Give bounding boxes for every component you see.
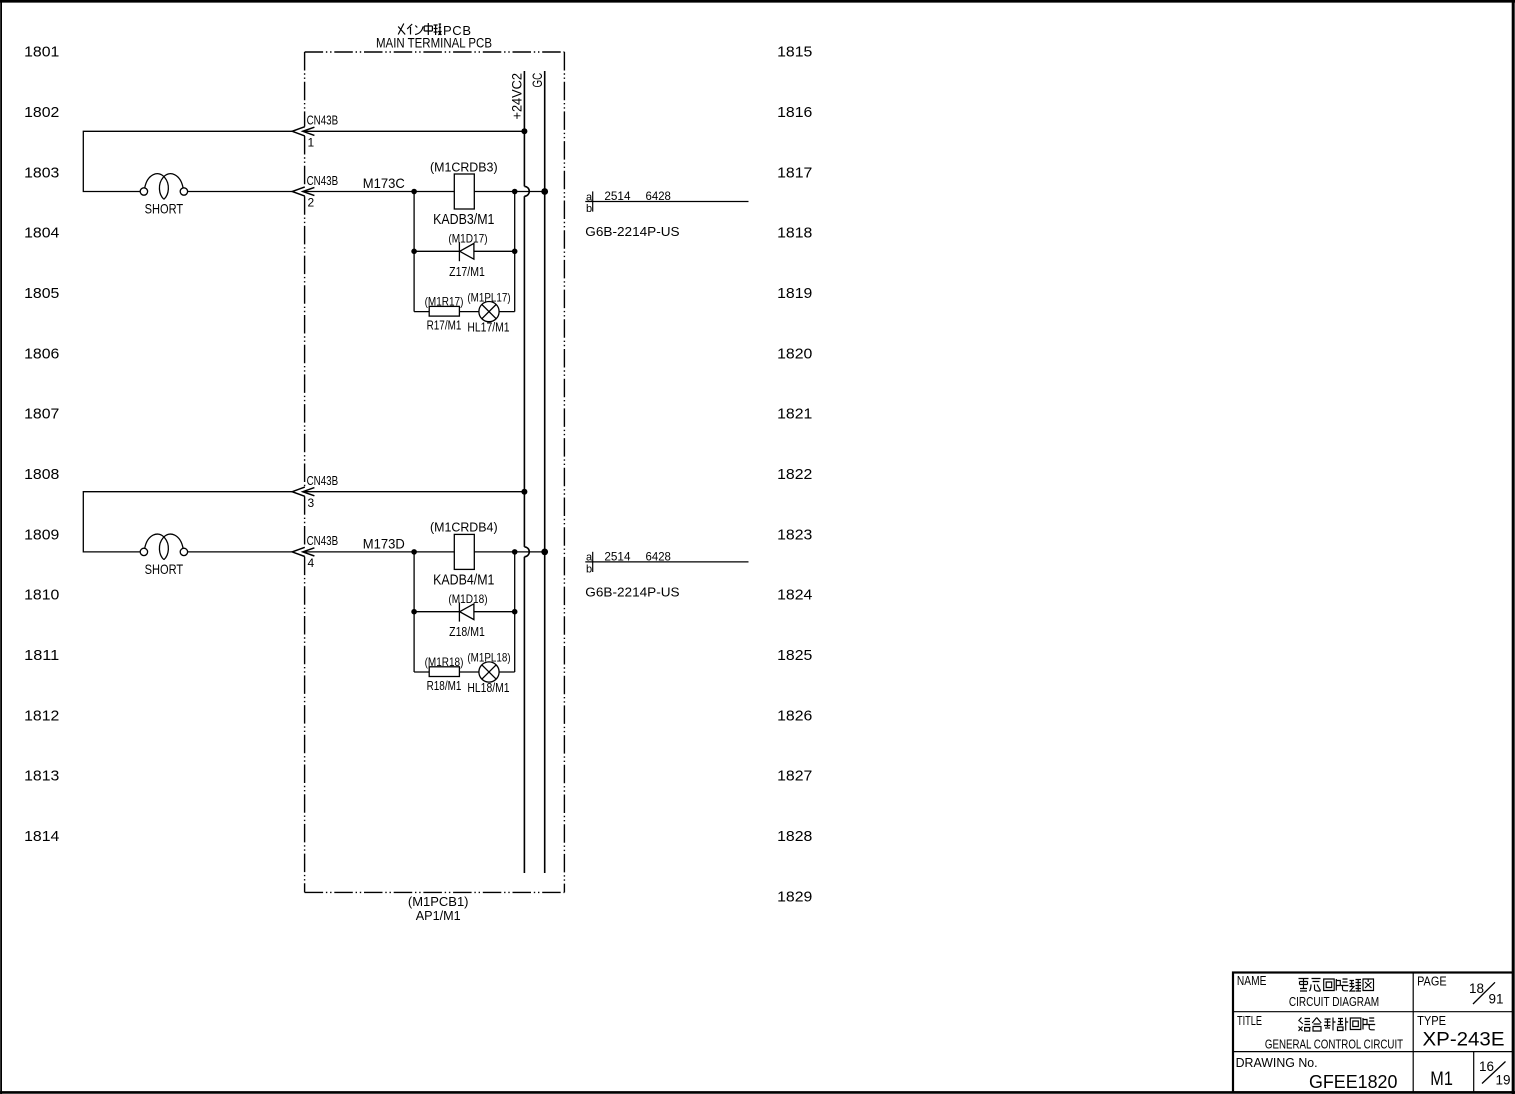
svg-text:1812: 1812	[24, 707, 59, 724]
svg-text:PAGE: PAGE	[1417, 975, 1447, 989]
node: diode row right	[512, 609, 518, 615]
resistor R18/M1	[429, 667, 459, 677]
総合制御回路 (pseudo kanji strokes)	[1299, 1018, 1376, 1032]
svg-text:1823: 1823	[777, 526, 812, 543]
node: branch left on M173D	[411, 549, 417, 555]
svg-text:CN43B: CN43B	[307, 114, 339, 128]
wire pin1 to +24VC2	[303, 130, 525, 132]
svg-text:(M1PL18): (M1PL18)	[467, 651, 510, 665]
connector CN43B pin 3	[292, 487, 314, 496]
PCB title メイン中継PCB (pseudo kanji strokes)	[398, 23, 441, 35]
svg-text:1820: 1820	[777, 345, 812, 362]
svg-text:GENERAL CONTROL CIRCUIT: GENERAL CONTROL CIRCUIT	[1265, 1036, 1403, 1051]
rail GC	[544, 71, 546, 873]
diode Z18/M1	[459, 603, 474, 622]
connector CN43B pin 1	[292, 127, 314, 136]
svg-text:1804: 1804	[24, 225, 59, 242]
relay coil KADB4/M1	[454, 534, 474, 569]
svg-text:b: b	[586, 563, 592, 575]
node: branch left on M173C	[411, 189, 417, 195]
PCB enclosure box (phantom dash-dot-dot outline), MAIN TERMINAL PCB	[305, 52, 565, 892]
svg-text:2: 2	[308, 196, 315, 210]
wire: left return loop pin3-pin4	[83, 492, 292, 552]
svg-text:1818: 1818	[777, 225, 812, 242]
svg-text:Z18/M1: Z18/M1	[449, 625, 485, 639]
svg-text:(M1PCB1): (M1PCB1)	[408, 894, 469, 909]
lamp HL18/M1	[479, 662, 499, 682]
svg-text:1819: 1819	[777, 285, 812, 302]
resistor R17/M1	[429, 306, 459, 316]
svg-text:SHORT: SHORT	[145, 201, 184, 217]
wire: diode row	[414, 611, 515, 613]
wire: left branch vertical	[413, 552, 415, 672]
svg-text:1825: 1825	[777, 647, 812, 664]
svg-text:1817: 1817	[777, 164, 812, 181]
svg-text:1827: 1827	[777, 768, 812, 785]
svg-text:1805: 1805	[24, 285, 59, 302]
svg-text:R18/M1: R18/M1	[427, 679, 462, 693]
power rail +24VC2	[524, 71, 529, 873]
svg-text:1808: 1808	[24, 466, 59, 483]
svg-text:KADB4/M1: KADB4/M1	[433, 573, 494, 589]
svg-text:R17/M1: R17/M1	[427, 319, 462, 333]
svg-text:1807: 1807	[24, 406, 59, 423]
relay coil KADB3/M1	[454, 174, 474, 209]
svg-text:KADB3/M1: KADB3/M1	[433, 212, 494, 228]
svg-text:4: 4	[308, 556, 315, 570]
wire: left return loop pin1-pin2	[83, 131, 292, 191]
svg-text:1822: 1822	[777, 466, 812, 483]
svg-text:1828: 1828	[777, 828, 812, 845]
wire: lamp row	[414, 311, 515, 313]
diode Z17/M1	[459, 242, 474, 261]
wire pin2 (M173C net) to GC	[303, 191, 545, 193]
svg-text:1824: 1824	[777, 587, 812, 604]
wire: right branch vertical	[514, 192, 516, 312]
wire pin4 (M173D net) to GC	[303, 551, 545, 553]
node: diode row left	[411, 609, 417, 615]
node: branch right on M173C	[512, 189, 518, 195]
svg-text:(M1D17): (M1D17)	[448, 231, 487, 245]
svg-text:1806: 1806	[24, 345, 59, 362]
connector CN43B pin 2	[292, 187, 314, 196]
svg-text:M173D: M173D	[363, 536, 405, 552]
svg-text:1809: 1809	[24, 526, 59, 543]
svg-text:(M1D18): (M1D18)	[448, 592, 487, 606]
svg-text:NAME: NAME	[1237, 974, 1267, 988]
wire: lamp row	[414, 671, 515, 673]
node: branch right on M173D	[512, 549, 518, 555]
wire: diode row	[414, 250, 515, 252]
svg-text:CIRCUIT DIAGRAM: CIRCUIT DIAGRAM	[1289, 994, 1379, 1009]
relay contact reference a/b	[585, 191, 748, 211]
svg-text:1801: 1801	[24, 44, 59, 61]
電気回路線図 (pseudo kanji strokes)	[1299, 979, 1374, 992]
jumper SHORT	[140, 174, 187, 200]
svg-text:(M1CRDB3): (M1CRDB3)	[430, 159, 498, 174]
svg-text:91: 91	[1489, 992, 1504, 1007]
node: pin1 wire joins +24VC2	[521, 128, 527, 134]
svg-text:+24VC2: +24VC2	[510, 73, 525, 120]
svg-text:b: b	[586, 203, 592, 215]
svg-text:AP1/M1: AP1/M1	[416, 908, 461, 923]
node: M173C joins GC	[541, 188, 548, 195]
svg-text:XP-243E: XP-243E	[1423, 1029, 1505, 1051]
svg-text:6428: 6428	[646, 191, 671, 203]
lamp HL17/M1	[479, 302, 499, 322]
svg-text:TITLE: TITLE	[1237, 1014, 1262, 1028]
svg-text:1816: 1816	[777, 104, 812, 121]
node: pin3 wire joins +24VC2	[521, 489, 527, 495]
node: diode row right	[512, 249, 518, 255]
svg-text:1802: 1802	[24, 104, 59, 121]
svg-text:1813: 1813	[24, 768, 59, 785]
svg-text:1815: 1815	[777, 44, 812, 61]
svg-text:1826: 1826	[777, 707, 812, 724]
relay contact reference a/b	[585, 552, 748, 572]
svg-text:G6B-2214P-US: G6B-2214P-US	[585, 224, 680, 239]
svg-text:1810: 1810	[24, 587, 59, 604]
svg-text:a: a	[586, 191, 593, 203]
svg-text:HL17/M1: HL17/M1	[467, 320, 509, 334]
svg-text:GC: GC	[530, 73, 545, 88]
svg-text:G6B-2214P-US: G6B-2214P-US	[585, 585, 680, 600]
svg-text:SHORT: SHORT	[145, 561, 184, 577]
svg-text:M173C: M173C	[363, 175, 405, 191]
node: diode row left	[411, 249, 417, 255]
svg-text:3: 3	[308, 496, 315, 510]
connector CN43B pin 4	[292, 547, 314, 556]
svg-text:1821: 1821	[777, 406, 812, 423]
svg-text:(M1R17): (M1R17)	[425, 295, 464, 309]
node: M173D joins GC	[541, 549, 548, 556]
svg-text:19: 19	[1496, 1073, 1511, 1088]
svg-text:16: 16	[1479, 1059, 1494, 1074]
svg-text:(M1PL17): (M1PL17)	[467, 290, 510, 304]
wire: right branch vertical	[514, 552, 516, 672]
wire: left branch vertical	[413, 192, 415, 312]
svg-text:a: a	[586, 552, 593, 564]
svg-text:Z17/M1: Z17/M1	[449, 265, 485, 279]
svg-text:6428: 6428	[646, 552, 671, 564]
wire pin3 to +24VC2	[303, 491, 525, 493]
svg-text:CN43B: CN43B	[307, 174, 339, 188]
svg-text:CN43B: CN43B	[307, 474, 339, 488]
right line-number column 1815-1829	[777, 44, 812, 906]
svg-text:M1: M1	[1430, 1069, 1453, 1090]
svg-text:18: 18	[1469, 981, 1484, 996]
svg-text:TYPE: TYPE	[1417, 1014, 1446, 1028]
svg-text:1829: 1829	[777, 888, 812, 905]
svg-text:DRAWING No.: DRAWING No.	[1236, 1056, 1318, 1070]
svg-text:(M1CRDB4): (M1CRDB4)	[430, 520, 498, 535]
svg-text:HL18/M1: HL18/M1	[467, 681, 509, 695]
svg-text:2514: 2514	[604, 191, 631, 203]
svg-text:GFEE1820: GFEE1820	[1309, 1071, 1397, 1092]
svg-text:2514: 2514	[604, 552, 631, 564]
svg-text:1: 1	[308, 136, 315, 150]
svg-text:1803: 1803	[24, 164, 59, 181]
svg-text:1814: 1814	[24, 828, 59, 845]
svg-text:1811: 1811	[24, 647, 59, 664]
jumper SHORT	[140, 534, 187, 560]
svg-text:MAIN TERMINAL PCB: MAIN TERMINAL PCB	[376, 36, 492, 51]
svg-text:CN43B: CN43B	[307, 534, 339, 548]
left line-number column 1801-1814	[24, 44, 59, 845]
svg-text:(M1R18): (M1R18)	[425, 655, 464, 669]
